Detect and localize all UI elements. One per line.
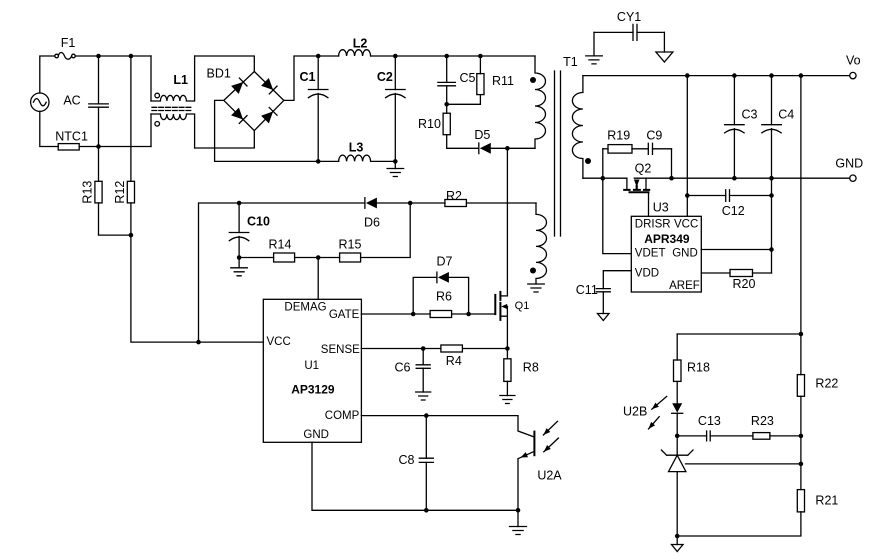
resistor R21 [797,490,804,512]
svg-text:VDET: VDET [635,248,666,260]
resistor R8 [506,349,508,359]
svg-text:COMP: COMP [325,410,360,422]
capacitor C13 [677,435,706,437]
svg-text:R11: R11 [492,74,514,88]
wire [677,333,801,335]
node [129,233,134,238]
resistor R18 [676,334,678,360]
svg-text:R6: R6 [436,289,452,303]
svg-text:DRISR: DRISR [635,218,671,230]
capacitor C12 [687,195,725,197]
svg-text:U3: U3 [653,201,669,215]
wire GATE [361,313,430,315]
AC source [31,93,49,111]
svg-text:U2A: U2A [537,469,562,483]
node [411,312,416,317]
wire DRISR [648,192,650,216]
svg-text:C2: C2 [377,70,393,84]
wire [800,76,802,375]
ground [517,510,519,526]
capacitor C10 [238,203,240,233]
inductor L3 [339,155,371,161]
svg-text:AP3129: AP3129 [291,382,335,396]
svg-text:R21: R21 [815,494,838,508]
wire [371,55,535,57]
ground [663,32,665,52]
svg-text:R19: R19 [607,128,630,142]
node [799,332,804,337]
svg-text:R14: R14 [269,237,292,251]
wire VDD [603,271,631,289]
MOSFET Q2 [626,178,628,188]
bridge diode upper-right [261,78,273,90]
node [505,146,510,151]
svg-text:D5: D5 [474,128,490,142]
node [408,201,413,206]
node [424,413,429,418]
resistor R14 [239,257,274,259]
diode D5 [478,143,480,154]
svg-text:R20: R20 [733,277,756,291]
svg-text:C10: C10 [247,215,270,229]
svg-text:R18: R18 [687,361,710,375]
svg-text:C1: C1 [300,70,316,84]
bridge diode lower-right [261,111,273,123]
svg-text:CY1: CY1 [617,10,641,24]
svg-text:BD1: BD1 [207,67,231,81]
svg-text:F1: F1 [61,36,76,50]
node [96,54,101,59]
resistor R13 [98,147,100,182]
svg-text:T1: T1 [563,55,578,69]
terminal Vo [850,72,856,78]
svg-text:D6: D6 [364,216,380,230]
svg-text:SENSE: SENSE [321,344,360,356]
optocoupler transistor U2A [518,416,534,437]
resistor R2 [445,200,467,207]
svg-text:GND: GND [672,248,698,260]
transformer core [555,71,561,236]
node [421,346,426,351]
capacitor C2 [394,56,396,90]
light arrow [543,421,557,435]
MOSFET Q1 [500,295,507,297]
IC U1 AP3129 [263,299,361,442]
wire [771,178,773,273]
svg-text:R23: R23 [751,414,774,428]
svg-text:Vo: Vo [846,53,861,67]
wire [676,472,678,536]
wire [671,149,673,178]
node [769,193,774,198]
bridge diode lower-left [231,108,243,120]
fuse F1 [55,54,59,58]
node [196,340,201,345]
wire GND pin [701,249,771,251]
node [769,247,774,252]
node [393,159,398,164]
wire DEMAG [317,258,319,300]
capacitor C9 [648,143,652,154]
wire [195,56,255,72]
svg-text:C13: C13 [698,414,721,428]
transformer T1 primary winding [535,56,546,148]
shunt regulator TL431 [676,436,678,455]
svg-text:AC: AC [63,94,80,108]
capacitor C6 [422,349,424,365]
wire [75,55,151,57]
wire VDET [603,178,632,253]
node [601,176,606,181]
svg-text:R8: R8 [523,361,539,375]
resistor R22 [797,375,804,397]
svg-text:R22: R22 [815,377,838,391]
node [685,73,690,78]
optocoupler LED U2B [672,403,682,412]
wire drain column [506,148,508,296]
ground [238,258,240,268]
wire GND rail [583,177,627,179]
svg-text:C12: C12 [722,204,745,218]
bridge rectifier BD1 [224,72,284,131]
svg-text:R13: R13 [80,181,94,204]
transformer auxiliary winding [536,203,547,284]
svg-text:VCC: VCC [674,218,698,230]
node [675,534,680,539]
common-mode choke L1 [150,56,152,101]
wire Vo rail [583,75,850,77]
svg-text:Q1: Q1 [515,300,530,312]
resistor R4 [441,345,463,352]
svg-text:C11: C11 [576,283,598,297]
svg-text:C8: C8 [399,453,415,467]
wire GND [312,442,518,510]
node [444,102,449,107]
resistor R19 [603,148,608,150]
ground [416,392,431,400]
svg-text:R12: R12 [113,181,127,204]
node [799,434,804,439]
transformer secondary winding [572,76,583,179]
ground [528,284,545,292]
wire [40,111,58,146]
resistor R11 [479,56,481,74]
svg-text:U1: U1 [304,360,319,372]
svg-text:C3: C3 [742,108,758,122]
wire [199,202,365,204]
node [316,255,321,260]
light arrow [649,417,660,429]
light arrow [544,438,559,452]
wire [371,160,396,162]
ground [602,292,604,314]
diode D7 [413,277,436,314]
bridge diode upper-left [231,82,243,94]
node [675,434,680,439]
svg-text:NTC1: NTC1 [55,130,88,144]
wire VCC [686,76,688,217]
svg-text:R4: R4 [446,354,462,368]
NTC NTC1 [58,144,79,150]
capacitor CY1 [594,31,633,33]
resistor R20 [701,272,730,274]
capacitor C8 [425,416,427,459]
node [237,201,242,206]
node [316,159,321,164]
svg-text:VDD: VDD [635,267,659,279]
light arrow [652,396,667,409]
svg-text:AREF: AREF [669,280,700,292]
svg-text:R10: R10 [418,117,441,131]
IC U3 APR349 [631,216,701,292]
node [466,312,471,317]
ground [394,161,396,168]
capacitor C4 [771,76,773,125]
wire [195,131,255,148]
node [799,462,804,467]
wire [284,56,339,100]
svg-text:Q2: Q2 [635,162,652,176]
svg-text:R15: R15 [339,237,362,251]
svg-text:D7: D7 [437,255,453,269]
capacitor C3 [733,76,735,125]
svg-text:VCC: VCC [267,336,291,348]
wire VCC rail [131,235,263,342]
svg-text:GND: GND [303,429,329,441]
svg-text:DEMAG: DEMAG [284,302,326,314]
wire negative rail [215,100,339,161]
svg-text:U2B: U2B [623,404,647,418]
X capacitor [98,56,100,104]
svg-text:APR349: APR349 [644,232,690,246]
node [237,255,242,260]
resistor R6 [430,311,452,318]
capacitor C5 [446,56,448,82]
capacitor C1 [317,56,319,90]
resistor R10 [446,104,448,113]
terminal GND [850,175,856,181]
inductor L2 [339,50,371,56]
node [505,346,510,351]
svg-text:L2: L2 [353,36,368,50]
node [424,508,429,513]
ground [676,536,678,545]
wire [79,146,151,148]
wire COMP [361,415,518,417]
capacitor C11 [596,289,610,292]
svg-text:L1: L1 [173,73,188,87]
svg-text:L3: L3 [349,140,364,154]
wire [198,203,200,342]
wire [466,202,536,204]
svg-text:C5: C5 [460,71,476,85]
svg-text:GATE: GATE [329,309,360,321]
wire SENSE [361,348,440,350]
wire [40,56,55,93]
wire REF [686,463,801,465]
svg-text:C9: C9 [646,128,662,142]
resistor R12 [130,56,132,181]
node [316,54,321,59]
resistor R23 [753,433,770,440]
svg-text:C6: C6 [395,361,411,375]
svg-text:C4: C4 [778,108,794,122]
wire [602,149,604,178]
node [393,54,398,59]
ground [500,396,515,404]
svg-text:GND: GND [835,157,863,171]
node [685,193,690,198]
diode D6 [377,202,410,204]
svg-text:R2: R2 [446,189,462,203]
node [96,144,101,149]
wire [491,147,535,149]
ground [593,32,595,56]
resistor R15 [318,257,339,259]
